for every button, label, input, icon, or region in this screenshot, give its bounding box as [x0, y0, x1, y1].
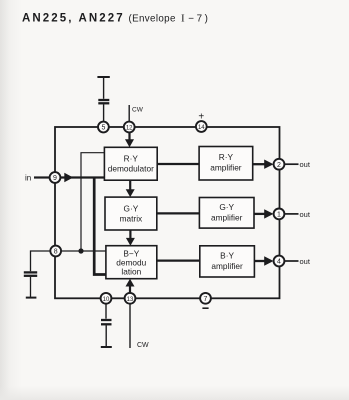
wire: R-Y amplifier to pin 2 with arrow — [253, 163, 267, 165]
svg-text:12: 12 — [126, 126, 133, 132]
wire: G-Y matrix to G-Y amplifier — [157, 212, 200, 214]
wire: thick branch down to B-Y demodulation — [94, 178, 106, 275]
svg-text:14: 14 — [198, 125, 205, 131]
svg-text:CW: CW — [132, 107, 144, 114]
svg-text:10: 10 — [103, 297, 110, 303]
wire: R-Y demodulator down to G-Y matrix — [129, 180, 131, 190]
wire: pin 1 to out — [284, 213, 298, 215]
arrowhead into G-Y matrix top — [126, 189, 135, 197]
block B-Y amplifier — [200, 246, 255, 277]
svg-text:G·Y: G·Y — [124, 204, 139, 214]
wire: R-Y demodulator to R-Y amplifier — [157, 163, 199, 165]
pin 2 — [274, 159, 285, 170]
pin 1 — [274, 209, 285, 220]
svg-text:4: 4 — [277, 259, 281, 266]
pin 13 — [125, 293, 136, 304]
wire: pin 8 to capacitor C2 — [31, 251, 51, 271]
junction dot — [78, 248, 83, 253]
wire: B-Y demodulation to B-Y amplifier — [157, 259, 200, 261]
pin 4 — [274, 256, 285, 267]
capacitor C3 bottom lead — [105, 325, 107, 346]
svg-text:8: 8 — [54, 249, 58, 256]
capacitor C2 T-bar — [26, 297, 37, 299]
arrowhead into B-Y demodulation top — [126, 238, 135, 246]
wire: CW lead below pin 13 — [129, 304, 131, 348]
block R-Y amplifier — [199, 147, 253, 181]
svg-text:B·Y: B·Y — [220, 251, 234, 261]
svg-text:2: 2 — [277, 162, 281, 169]
svg-text:out: out — [300, 257, 311, 266]
svg-text:(Envelope: (Envelope — [129, 13, 176, 24]
pin 12 — [124, 122, 135, 133]
svg-text:R·Y: R·Y — [219, 152, 234, 162]
svg-text:5: 5 — [101, 125, 105, 132]
block B-Y demodulation — [106, 246, 157, 279]
wire: in lead to pin 9 — [34, 176, 50, 178]
node - label below pin 7 — [202, 307, 208, 309]
arrowhead into B-Y demodulation bottom (up) — [126, 279, 135, 287]
capacitor C1 top lead — [103, 77, 105, 99]
pin 7 — [200, 293, 211, 304]
outer IC boundary box — [55, 127, 280, 298]
svg-text:lation: lation — [121, 266, 141, 276]
wire: pin 8 to B-Y demodulation (thin) — [61, 250, 106, 252]
svg-text:out: out — [300, 210, 311, 219]
svg-text:G·Y: G·Y — [219, 202, 234, 212]
capacitor C1 bottom lead to pin 5 — [103, 104, 105, 122]
svg-text:R·Y: R·Y — [124, 154, 139, 164]
svg-text:CW: CW — [137, 342, 149, 349]
arrowhead into R-Y demodulator top — [125, 139, 134, 147]
capacitor C2 (left) plates — [24, 271, 37, 273]
svg-text:1: 1 — [277, 212, 281, 219]
svg-text:amplifier: amplifier — [211, 213, 243, 223]
wire: pin 12 down into R-Y demodulator — [128, 132, 130, 141]
pin 5 — [98, 122, 109, 133]
svg-text:matrix: matrix — [120, 214, 143, 224]
wire: G-Y amplifier to pin 1 with arrow — [254, 213, 267, 215]
wire: pin 4 to out — [284, 260, 298, 262]
block G-Y matrix — [105, 197, 157, 230]
svg-text:demodulator: demodulator — [108, 164, 154, 174]
wire: pin 2 to out — [284, 163, 298, 165]
capacitor C3 (bottom) plates — [101, 319, 112, 321]
svg-text:7: 7 — [204, 296, 208, 303]
svg-text:I: I — [181, 12, 185, 24]
svg-text:out: out — [300, 160, 311, 169]
svg-text:amplifier: amplifier — [210, 163, 242, 173]
capacitor C1 plates — [98, 99, 109, 101]
pin 8 — [50, 246, 61, 257]
wire: pin 10 to capacitor C3 — [105, 304, 107, 319]
svg-text:9: 9 — [53, 175, 57, 182]
wire: pin 9 to R-Y demodulator (thick) — [60, 176, 104, 178]
svg-text:amplifier: amplifier — [211, 261, 243, 271]
svg-text:AN225, AN227: AN225, AN227 — [22, 13, 125, 25]
block G-Y amplifier — [199, 198, 254, 229]
svg-text:−7): −7) — [188, 13, 210, 24]
pin 10 — [101, 293, 112, 304]
wire: pin 13 up into B-Y demodulation — [129, 286, 131, 294]
pin 9 — [50, 172, 61, 183]
wire: CW stub above pin 12 — [128, 105, 130, 122]
capacitor C1 (top) T-bar — [97, 76, 109, 78]
svg-text:13: 13 — [127, 297, 134, 303]
svg-text:in: in — [25, 174, 31, 183]
wire: B-Y amplifier to pin 4 with arrow — [254, 260, 267, 262]
capacitor C3 T-bar — [101, 346, 112, 348]
arrowhead after pin 9 — [64, 173, 73, 182]
capacitor C2 bottom lead — [30, 277, 32, 297]
wire: thin feedback R-Y demod left to pin 8 rail — [81, 153, 104, 251]
pin 14 — [196, 121, 207, 132]
wire: G-Y matrix down to B-Y demodulation — [129, 230, 131, 239]
block R-Y demodulator — [104, 147, 157, 180]
